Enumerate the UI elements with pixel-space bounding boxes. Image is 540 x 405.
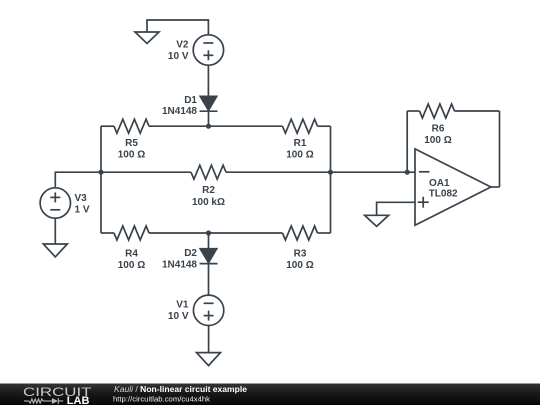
svg-text:R3: R3 [294, 249, 307, 260]
svg-text:100 Ω: 100 Ω [118, 150, 145, 161]
svg-text:100 Ω: 100 Ω [286, 150, 313, 161]
svg-text:1 V: 1 V [75, 204, 90, 215]
svg-text:Kauli / Non-linear circuit exa: Kauli / Non-linear circuit example [114, 384, 247, 394]
svg-text:D2: D2 [184, 248, 197, 259]
svg-text:R1: R1 [294, 138, 307, 149]
svg-text:LAB: LAB [67, 395, 90, 405]
junction (D2 / bottom bus) [206, 230, 211, 235]
svg-text:10 V: 10 V [168, 311, 189, 322]
wire feedback top right segment [455, 110, 500, 112]
V2 name/value labels [168, 40, 189, 62]
D2 name/value labels [162, 248, 197, 271]
voltage source V3 [40, 188, 70, 218]
wire middle bus left segment [101, 171, 191, 173]
junction (middle bus / feedback) [405, 170, 410, 175]
footer bar [0, 384, 540, 405]
ground (below V3) [43, 244, 67, 257]
wire V3 to middle node [55, 172, 101, 188]
svg-text:10 V: 10 V [168, 51, 189, 62]
wire right vertical [330, 126, 332, 233]
wire non-inverting input [377, 202, 415, 215]
junction (D1 / top bus) [206, 124, 211, 129]
R6 name/value labels [424, 123, 451, 146]
wire bottom bus middle segment [149, 232, 283, 234]
resistor R4 [114, 226, 149, 240]
junction (middle bus / right vertical) [328, 170, 333, 175]
svg-text:V3: V3 [75, 193, 88, 204]
OA1 name/value labels [429, 178, 458, 200]
svg-text:R6: R6 [432, 123, 445, 134]
wire D2 to V1 [208, 264, 210, 296]
svg-text:100 Ω: 100 Ω [118, 260, 145, 271]
svg-text:1N4148: 1N4148 [162, 106, 197, 117]
svg-text:http://circuitlab.com/cu4x4hk: http://circuitlab.com/cu4x4hk [113, 394, 210, 403]
V1 name/value labels [168, 299, 189, 322]
R3 name/value labels [286, 249, 313, 271]
junction (V3 / middle bus) [98, 170, 103, 175]
wire bottom bus right segment [318, 232, 331, 234]
diode D2 [200, 249, 218, 264]
op-amp OA1 [415, 149, 491, 225]
wire top bus right segment [318, 125, 331, 127]
op-amp inverting input marker [419, 171, 430, 173]
R1 name/value labels [286, 138, 313, 160]
wire V1 to ground [208, 326, 210, 353]
wire top bus middle segment [149, 125, 283, 127]
wire middle bus right segment [226, 171, 415, 173]
svg-text:OA1: OA1 [429, 178, 450, 189]
wire V2 top to ground [147, 20, 208, 35]
wire feedback top left segment [407, 110, 419, 112]
wire op-amp output [491, 186, 500, 188]
svg-text:R5: R5 [125, 138, 138, 149]
R4 name/value labels [118, 249, 145, 271]
D1 name/value labels [162, 95, 197, 117]
svg-text:100 Ω: 100 Ω [424, 135, 451, 146]
voltage source V2 [193, 35, 223, 65]
wire feedback left vertical [406, 111, 408, 172]
ground (op-amp non-inverting input) [365, 215, 389, 226]
ground (top left, above V2) [135, 32, 159, 44]
svg-text:100 Ω: 100 Ω [286, 260, 313, 271]
svg-text:R4: R4 [125, 249, 138, 260]
resistor R1 [283, 119, 318, 133]
svg-text:V2: V2 [176, 40, 189, 51]
wire left vertical [100, 126, 102, 233]
svg-text:100 kΩ: 100 kΩ [192, 197, 225, 208]
resistor R3 [283, 226, 318, 240]
resistor R2 [191, 165, 226, 179]
wire D1 to top bus [208, 111, 210, 126]
wire bottom bus left segment [101, 232, 114, 234]
R5 name/value labels [118, 138, 145, 160]
svg-text:V1: V1 [176, 299, 189, 310]
ground (below V1) [197, 353, 221, 366]
svg-text:D1: D1 [184, 95, 197, 106]
voltage source V1 [193, 295, 223, 325]
wire V3 to ground [54, 218, 56, 244]
wire top bus left segment [101, 125, 114, 127]
svg-text:R2: R2 [202, 185, 215, 196]
resistor R5 [114, 119, 149, 133]
svg-text:TL082: TL082 [429, 188, 458, 199]
wire bottom bus to D2 [208, 233, 210, 249]
R2 name/value labels [192, 185, 225, 208]
wire V2 to D1 [207, 65, 209, 96]
diode D1 [200, 96, 218, 111]
CircuitLab logo schematic glyph [24, 398, 63, 404]
wire feedback right vertical [499, 111, 501, 187]
V3 name/value labels [75, 193, 90, 215]
op-amp non-inverting input marker [418, 197, 429, 208]
resistor R6 [420, 104, 455, 118]
svg-text:1N4148: 1N4148 [162, 260, 197, 271]
